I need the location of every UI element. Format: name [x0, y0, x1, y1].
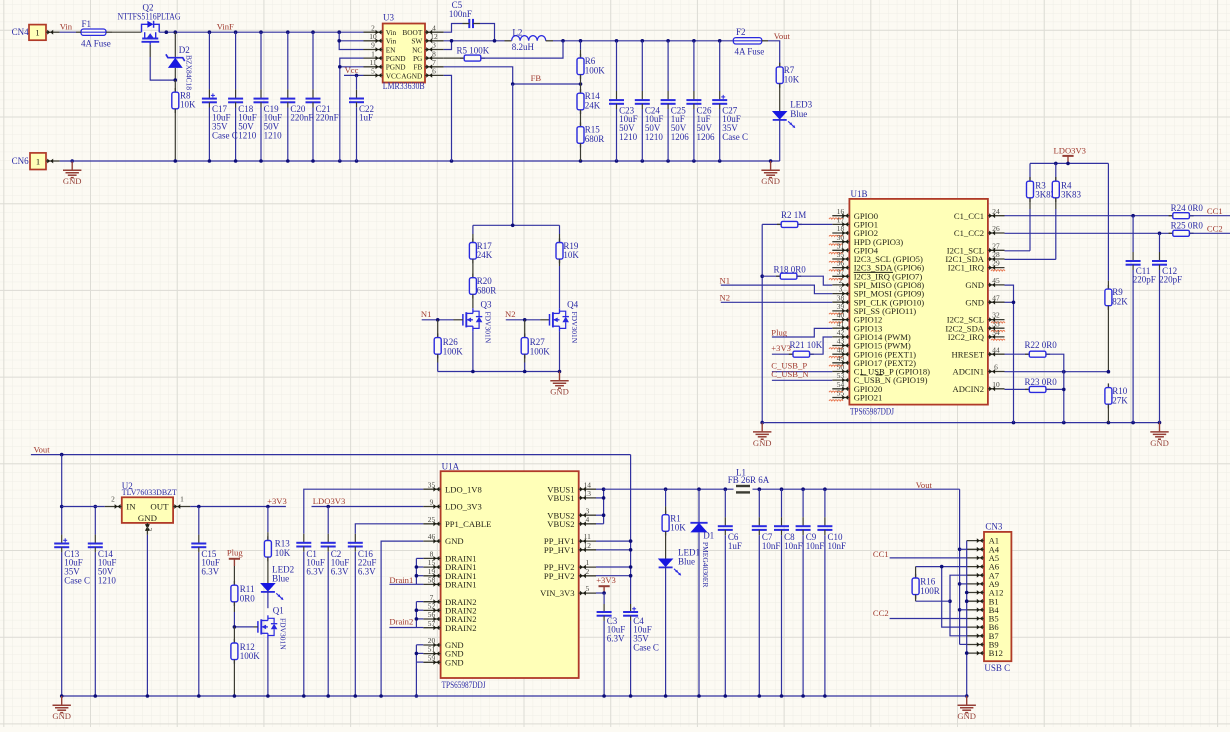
wire C1_CC2 to R25 — [1005, 232, 1173, 236]
capacitor C7 10nF — [752, 489, 781, 696]
svg-text:1uF: 1uF — [359, 113, 373, 123]
svg-text:FDV301N: FDV301N — [570, 312, 579, 344]
svg-text:R25 0R0: R25 0R0 — [1171, 221, 1204, 231]
capacitor C11 220pF — [1126, 216, 1156, 423]
resistor R23 0R0 — [1005, 377, 1064, 392]
svg-text:OUT: OUT — [150, 502, 169, 512]
resistor R4 3K83 — [1052, 163, 1081, 259]
diode D2 BZX84C18 zener — [166, 32, 194, 90]
svg-text:1: 1 — [585, 558, 589, 567]
svg-text:39: 39 — [837, 302, 845, 311]
svg-text:680R: 680R — [477, 285, 497, 295]
svg-text:+3V3: +3V3 — [267, 496, 287, 506]
svg-text:220pF: 220pF — [1159, 275, 1182, 285]
wire PP1_CABLE to C16 — [355, 524, 423, 534]
svg-text:R18 0R0: R18 0R0 — [774, 264, 807, 274]
svg-text:6: 6 — [994, 363, 998, 372]
net label Vout bottom left — [34, 445, 51, 455]
svg-text:Vin: Vin — [386, 37, 397, 46]
svg-text:6.3V: 6.3V — [358, 567, 376, 577]
svg-text:CN6: CN6 — [12, 156, 30, 166]
wire Vout to U2 IN — [62, 506, 105, 508]
capacitor C24 10uF — [635, 41, 664, 161]
svg-text:47: 47 — [992, 293, 1000, 302]
svg-text:8: 8 — [430, 550, 434, 559]
svg-text:10: 10 — [992, 380, 1000, 389]
svg-text:1210: 1210 — [98, 575, 117, 585]
wire Q1 gate node — [233, 625, 258, 629]
capacitor C25 1uF — [661, 41, 690, 161]
capacitor C21 220nF — [306, 32, 339, 161]
svg-text:LDO_3V3: LDO_3V3 — [445, 502, 482, 512]
net label Vout at CN3 — [916, 480, 933, 490]
svg-text:10: 10 — [369, 32, 377, 41]
resistor R7 10K — [776, 63, 800, 111]
svg-text:8.2uH: 8.2uH — [512, 42, 535, 52]
LED1 Blue — [658, 548, 700, 696]
svg-text:TPS65987DDJ: TPS65987DDJ — [850, 407, 894, 417]
svg-text:PP_HV1: PP_HV1 — [544, 545, 575, 555]
svg-text:14: 14 — [584, 480, 592, 489]
fuse F1 — [76, 19, 112, 48]
svg-text:GND: GND — [550, 387, 569, 397]
svg-text:Blue: Blue — [272, 573, 289, 583]
wire Drain1 bracket — [389, 558, 423, 584]
svg-text:10nF: 10nF — [762, 541, 781, 551]
svg-text:35: 35 — [428, 480, 436, 489]
wire GND rail below U1B — [762, 421, 1161, 425]
svg-text:VBUS2: VBUS2 — [547, 519, 574, 529]
svg-text:3: 3 — [145, 528, 154, 532]
wire L2 to F2 output rail — [553, 39, 733, 43]
capacitor C27 10uF — [712, 41, 748, 161]
svg-text:GND: GND — [957, 711, 976, 721]
svg-text:C1_CC1: C1_CC1 — [954, 211, 984, 221]
wire C_USB_P to GPIO18 — [772, 371, 832, 373]
svg-text:GND: GND — [965, 297, 984, 307]
net label Vout top — [774, 31, 791, 41]
wire N2 to SPI_CLK — [721, 301, 833, 303]
net label CC2 at CN3 — [873, 608, 889, 618]
net label C_USB_N — [771, 369, 809, 379]
svg-text:Drain2: Drain2 — [389, 617, 413, 627]
IC U1B TPS65987DDJ — [829, 189, 1005, 417]
svg-text:PP1_CABLE: PP1_CABLE — [445, 519, 491, 529]
ground GND top right — [761, 161, 780, 186]
svg-text:82K: 82K — [1112, 297, 1128, 307]
net label N2 at U1B — [720, 293, 731, 303]
svg-text:1210: 1210 — [264, 130, 283, 140]
resistor R12 100K — [231, 627, 260, 696]
svg-text:+3V3: +3V3 — [771, 343, 791, 353]
resistor R5 100K — [444, 41, 563, 61]
svg-text:41: 41 — [837, 319, 845, 328]
svg-text:220pF: 220pF — [1133, 275, 1156, 285]
svg-text:59: 59 — [428, 653, 436, 662]
resistor R13 10K — [264, 507, 290, 584]
svg-text:LDO3V3: LDO3V3 — [1054, 146, 1086, 156]
capacitor C13 10uF — [54, 455, 90, 696]
wire U2 GND to rail — [146, 535, 148, 696]
svg-text:2: 2 — [839, 276, 843, 285]
wire ADCIN1 node — [1005, 370, 1111, 374]
svg-text:5: 5 — [585, 584, 589, 593]
svg-text:54: 54 — [837, 380, 845, 389]
wire FB to divider rail — [473, 224, 560, 228]
capacitor C9 10nF — [796, 489, 825, 696]
svg-text:10K: 10K — [784, 74, 800, 84]
svg-text:R5 100K: R5 100K — [457, 45, 490, 55]
wire F1 to Q2 — [112, 31, 141, 33]
svg-text:26: 26 — [992, 224, 1000, 233]
wire C1_CC1 to R24 — [1005, 214, 1173, 218]
svg-text:58: 58 — [428, 576, 436, 585]
svg-text:45: 45 — [992, 276, 1000, 285]
svg-text:57: 57 — [428, 619, 436, 628]
ground GND below Q4 — [550, 372, 569, 397]
svg-text:GND: GND — [52, 711, 71, 721]
svg-text:U3: U3 — [383, 13, 394, 23]
wire D plus tie A6 B6 — [916, 565, 967, 627]
svg-text:Plug: Plug — [227, 547, 243, 557]
svg-text:IN: IN — [126, 502, 136, 512]
svg-text:GND: GND — [1150, 438, 1169, 448]
svg-text:38: 38 — [837, 293, 845, 302]
wire U3 Vin EN tie — [337, 32, 363, 49]
svg-text:1: 1 — [371, 49, 375, 58]
capacitor C14 10uF — [88, 505, 117, 696]
net label FB — [531, 73, 542, 83]
svg-text:1206: 1206 — [697, 132, 716, 142]
resistor R14 24K — [577, 84, 601, 127]
wire LDO_3V3 to C2 — [312, 505, 424, 509]
svg-text:56: 56 — [428, 610, 436, 619]
svg-text:31: 31 — [837, 241, 845, 250]
wire I2C1_SCL to R3 — [1005, 250, 1031, 252]
wire CC1 to A5 — [890, 557, 967, 559]
wire C5 to SW — [480, 24, 495, 41]
net label Vin — [60, 22, 73, 32]
capacitor C16 22uF — [348, 534, 377, 696]
resistor R1 10K — [662, 489, 686, 558]
svg-text:Case C: Case C — [722, 132, 748, 142]
svg-text:PG: PG — [413, 54, 423, 63]
resistor R8 10K — [172, 80, 196, 161]
svg-text:49: 49 — [837, 354, 845, 363]
diode D1 PMEG4030ER — [690, 489, 714, 696]
svg-text:I2C2_IRQ: I2C2_IRQ — [948, 332, 985, 342]
wire Q2 gate to D2 anode node — [150, 45, 175, 81]
power symbol +3V3 at VIN_3V3 — [596, 575, 616, 593]
wire GND left rail U1B — [760, 224, 764, 422]
IC U3 LMR33630B — [364, 13, 444, 92]
svg-text:I2C1_IRQ: I2C1_IRQ — [948, 263, 985, 273]
wire Plug to GPIO13 — [772, 328, 832, 337]
wire VBUS bracket — [596, 487, 605, 523]
svg-text:11: 11 — [584, 532, 591, 541]
wire R16 to D minus — [916, 600, 950, 602]
svg-text:GND: GND — [753, 438, 772, 448]
svg-text:R21 10K: R21 10K — [790, 340, 823, 350]
svg-text:Q4: Q4 — [567, 300, 578, 310]
svg-text:1210: 1210 — [645, 132, 664, 142]
svg-text:VCC: VCC — [386, 71, 401, 80]
net label Vcc — [345, 65, 359, 75]
svg-text:Drain1: Drain1 — [389, 575, 413, 585]
wire LDO3V3 rail — [1030, 162, 1108, 166]
svg-text:TLV76033DBZT: TLV76033DBZT — [122, 488, 177, 497]
svg-text:10K: 10K — [275, 548, 291, 558]
net label CC1 at CN3 — [873, 549, 889, 559]
wire FB node — [511, 82, 582, 225]
svg-text:AGND: AGND — [401, 71, 422, 80]
svg-text:100nF: 100nF — [449, 9, 472, 19]
IC U1A TPS65987DDJ — [423, 461, 596, 689]
resistor R21 10K — [772, 337, 832, 357]
wire Vcc — [344, 74, 364, 78]
svg-text:CN3: CN3 — [985, 522, 1003, 532]
capacitor C19 10uF — [254, 32, 283, 161]
svg-text:18: 18 — [837, 224, 845, 233]
net label Drain2 — [389, 617, 413, 627]
transistor Q4 FDV301N — [550, 300, 580, 344]
svg-text:U1A: U1A — [442, 461, 460, 471]
capacitor C5 100nF — [449, 0, 480, 28]
svg-text:6.3V: 6.3V — [201, 567, 219, 577]
resistor R6 100K — [577, 41, 605, 84]
svg-text:36: 36 — [837, 259, 845, 268]
wire Q4 source to ground — [559, 331, 561, 371]
svg-text:24: 24 — [992, 207, 1000, 216]
svg-text:PMEG4030ER: PMEG4030ER — [701, 542, 710, 587]
svg-text:Vout: Vout — [34, 445, 51, 455]
svg-text:1: 1 — [180, 495, 184, 504]
svg-text:Vcc: Vcc — [345, 65, 359, 75]
svg-text:29: 29 — [992, 259, 1000, 268]
svg-text:GND: GND — [445, 536, 464, 546]
svg-text:B12: B12 — [989, 648, 1003, 658]
svg-text:GND: GND — [138, 513, 157, 523]
capacitor C4 10uF — [623, 604, 659, 696]
svg-text:43: 43 — [837, 337, 845, 346]
svg-text:Case C: Case C — [212, 130, 238, 140]
wire U1A GND pins bracket — [415, 645, 424, 698]
svg-text:USB C: USB C — [984, 663, 1010, 673]
net label CC1 right — [1207, 206, 1223, 216]
wire Vout corner — [768, 41, 780, 65]
ground GND at CN6 — [63, 159, 82, 186]
wire N1 to Q3 gate — [422, 318, 463, 322]
svg-text:1: 1 — [36, 156, 40, 166]
svg-text:DRAIN1: DRAIN1 — [445, 580, 477, 590]
svg-text:10K: 10K — [563, 250, 579, 260]
svg-text:FB 26R 6A: FB 26R 6A — [728, 475, 770, 485]
transistor Q1 FDV301N — [258, 605, 288, 650]
capacitor C3 10uF — [597, 604, 626, 696]
wire I2C1_SDA to R4 — [1005, 258, 1056, 260]
svg-text:220nF: 220nF — [316, 113, 339, 123]
wire VinF rail — [159, 30, 363, 34]
svg-text:C1_CC2: C1_CC2 — [954, 228, 984, 238]
wire N2 to Q4 gate — [506, 318, 550, 322]
svg-text:Case C: Case C — [64, 575, 90, 585]
wire CC2 to B5 — [890, 618, 967, 620]
ground GND bottom right — [957, 696, 976, 721]
net label N2 at Q4 — [505, 309, 516, 319]
svg-text:4: 4 — [585, 515, 589, 524]
svg-text:1uF: 1uF — [728, 541, 742, 551]
wire U3 AGND to ground — [444, 75, 452, 161]
resistor R9 82K — [1105, 163, 1128, 371]
wire R22 R23 to ground — [1062, 372, 1066, 423]
net label +3V3 at U2 — [267, 496, 287, 506]
svg-text:R2 1M: R2 1M — [781, 210, 806, 220]
svg-text:Case C: Case C — [633, 642, 659, 652]
net label N1 at U1B — [720, 275, 731, 285]
wire VIN_3V3 to C3 — [596, 591, 606, 604]
svg-text:0R0: 0R0 — [240, 594, 256, 604]
svg-text:GND: GND — [761, 176, 780, 186]
svg-text:FDV301N: FDV301N — [279, 618, 288, 650]
svg-text:220nF: 220nF — [290, 113, 313, 123]
svg-text:6.3V: 6.3V — [607, 634, 625, 644]
capacitor C18 10uF — [228, 32, 257, 161]
svg-text:10nF: 10nF — [784, 541, 803, 551]
wire C_USB_N to GPIO19 — [772, 379, 832, 381]
svg-text:PGND: PGND — [386, 54, 406, 63]
svg-text:100K: 100K — [443, 347, 464, 357]
svg-text:24K: 24K — [477, 250, 493, 260]
svg-text:4A Fuse: 4A Fuse — [81, 38, 111, 48]
svg-text:FB: FB — [531, 73, 542, 83]
svg-text:GPIO21: GPIO21 — [854, 393, 883, 403]
svg-text:Blue: Blue — [790, 109, 807, 119]
resistor R3 3K83 — [1027, 163, 1056, 250]
svg-text:44: 44 — [992, 345, 1000, 354]
resistor R25 0R0 — [1169, 221, 1230, 237]
wire U3 FB to divider — [444, 67, 513, 84]
svg-text:CC2: CC2 — [873, 608, 889, 618]
svg-text:15: 15 — [428, 558, 436, 567]
svg-text:CN4: CN4 — [12, 27, 30, 37]
wire bottom GND rail — [62, 694, 967, 698]
net label C_USB_P — [771, 360, 807, 370]
resistor R26 100K — [434, 320, 463, 372]
net label LDO3V3 at C2 — [313, 496, 345, 506]
svg-text:55: 55 — [837, 389, 845, 398]
IC U2 TLV76033DBZT — [105, 481, 191, 535]
inductor L2 8.2uH — [505, 27, 554, 52]
resistor R27 100K — [521, 320, 550, 372]
ground GND right of U1B — [1150, 423, 1169, 448]
svg-text:Blue: Blue — [678, 556, 695, 566]
svg-text:N1: N1 — [720, 275, 731, 285]
wire ground rail Q3 Q4 — [438, 370, 562, 374]
svg-text:16: 16 — [837, 207, 845, 216]
ferrite bead L1 FB 26R 6A — [728, 467, 770, 492]
svg-text:VBUS1: VBUS1 — [547, 493, 574, 503]
svg-text:10nF: 10nF — [806, 541, 825, 551]
capacitor C22 1uF — [349, 75, 374, 161]
svg-text:100K: 100K — [530, 347, 551, 357]
svg-text:FDV301N: FDV301N — [484, 312, 493, 344]
svg-text:VinF: VinF — [217, 22, 234, 32]
svg-text:Q3: Q3 — [481, 300, 492, 310]
svg-text:Vin: Vin — [60, 22, 73, 32]
svg-text:27: 27 — [992, 241, 1000, 250]
resistor R22 0R0 — [1005, 340, 1064, 372]
svg-text:1206: 1206 — [671, 132, 690, 142]
svg-text:SW: SW — [411, 37, 422, 46]
wire PP_HV bracket to Vout — [596, 455, 632, 604]
wire D minus tie A7 B7 — [948, 575, 967, 636]
resistor R20 680R — [469, 274, 496, 309]
svg-text:GND: GND — [445, 657, 464, 667]
svg-text:LMR33630B: LMR33630B — [383, 81, 425, 91]
svg-text:DRAIN2: DRAIN2 — [445, 623, 477, 633]
svg-text:1: 1 — [35, 28, 39, 38]
wire BOOT to C5 — [444, 24, 463, 33]
svg-text:8: 8 — [432, 49, 436, 58]
svg-text:PP_HV2: PP_HV2 — [544, 571, 575, 581]
svg-text:13: 13 — [584, 489, 592, 498]
svg-text:9: 9 — [430, 498, 434, 507]
svg-text:7: 7 — [430, 593, 434, 602]
svg-text:Vout: Vout — [774, 31, 791, 41]
svg-text:100R: 100R — [920, 586, 940, 596]
wire CN3 GND pins vertical — [965, 541, 969, 698]
transistor Q3 FDV301N — [463, 300, 493, 344]
svg-text:12: 12 — [430, 32, 438, 41]
svg-text:34: 34 — [992, 328, 1000, 337]
wire LDO_1V8 to C1 — [304, 489, 424, 534]
svg-text:CC2: CC2 — [1207, 224, 1223, 234]
svg-text:CC1: CC1 — [1207, 206, 1223, 216]
net label N1 at Q3 — [421, 309, 432, 319]
connector CN6 — [12, 153, 60, 170]
svg-text:2: 2 — [585, 567, 589, 576]
capacitor C23 10uF — [609, 41, 638, 161]
svg-text:R23 0R0: R23 0R0 — [1025, 377, 1058, 387]
capacitor C1 10uF — [296, 534, 325, 696]
svg-text:6: 6 — [432, 67, 436, 76]
connector CN3 USB C — [967, 522, 1012, 673]
svg-text:24K: 24K — [585, 101, 601, 111]
LED3 Blue — [772, 99, 813, 161]
svg-text:GND: GND — [63, 176, 82, 186]
wire N1 to SPI_MOSI — [721, 285, 833, 294]
wire GND rail top section — [60, 159, 780, 163]
svg-text:R22 0R0: R22 0R0 — [1025, 340, 1058, 350]
capacitor C26 1uF — [686, 41, 715, 161]
net label +3V3 at U1B — [771, 343, 791, 353]
wire SW rail — [444, 39, 505, 43]
svg-text:12: 12 — [584, 541, 592, 550]
svg-text:6.3V: 6.3V — [331, 567, 349, 577]
svg-text:680R: 680R — [585, 134, 605, 144]
wire CN3 VBUS rows — [960, 549, 967, 644]
net label Drain1 — [389, 575, 413, 585]
svg-text:+3V3: +3V3 — [596, 575, 616, 585]
resistor R18 0R0 — [762, 264, 832, 285]
wire Vout rail bottom — [31, 453, 631, 457]
svg-text:46: 46 — [428, 532, 436, 541]
resistor R16 100R — [912, 567, 940, 602]
svg-text:LDO_1V8: LDO_1V8 — [445, 484, 482, 494]
wire U3 PGND to ground — [338, 58, 364, 161]
power symbol LDO3V3 — [1054, 146, 1086, 164]
svg-text:ADCIN2: ADCIN2 — [952, 384, 984, 394]
